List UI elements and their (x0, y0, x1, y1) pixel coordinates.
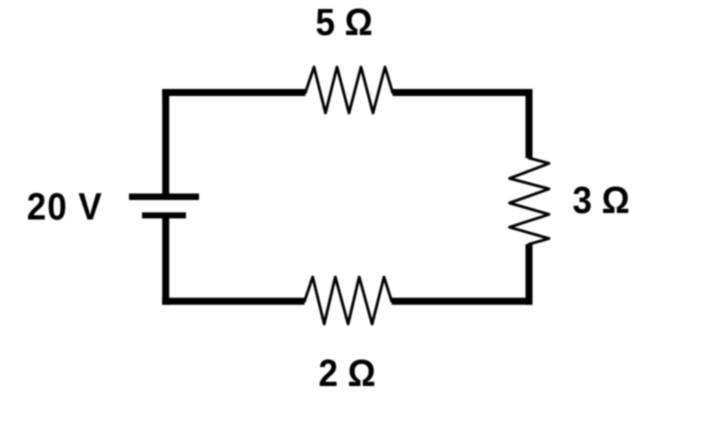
wire bottom-left horizontal segment (162, 298, 304, 305)
battery B1 long plate (positive) (129, 194, 199, 201)
wire bottom-right horizontal segment (392, 298, 533, 305)
resistor R1 5 ohm (top) (305, 67, 392, 113)
wire right vertical lower segment (526, 244, 533, 305)
svg-text:3 Ω: 3 Ω (573, 179, 630, 222)
wire left vertical upper segment (162, 89, 169, 194)
resistor R3 2 ohm (bottom) (305, 277, 392, 324)
wire right vertical upper segment (526, 89, 533, 158)
wire left vertical lower segment (162, 216, 169, 305)
wire top-left horizontal segment (162, 89, 305, 96)
wire top-right horizontal segment (393, 89, 533, 96)
battery B1 short plate (negative) (142, 212, 186, 218)
svg-text:20 V: 20 V (27, 185, 103, 228)
svg-text:5 Ω: 5 Ω (316, 1, 373, 44)
svg-text:2 Ω: 2 Ω (319, 352, 376, 395)
resistor R2 3 ohm (right) (510, 158, 550, 244)
